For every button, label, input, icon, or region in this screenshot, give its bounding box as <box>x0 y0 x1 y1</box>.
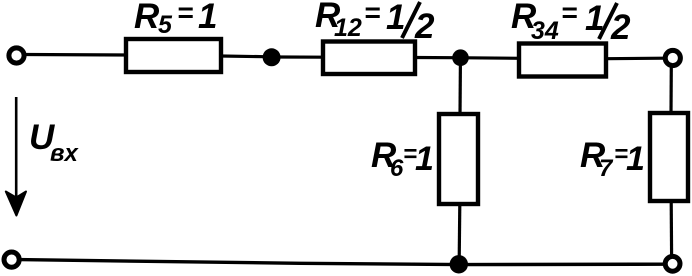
wire R6 down to node C <box>458 204 462 260</box>
label R5 = 1 <box>134 0 217 39</box>
wire node B down to R6 <box>458 64 462 116</box>
svg-text:2: 2 <box>610 8 631 47</box>
wire node B to R34 <box>468 56 521 60</box>
bottom rail wire <box>19 260 665 265</box>
terminal output top-right <box>665 50 680 65</box>
label R34 = 1/2 <box>511 0 631 47</box>
svg-text:1: 1 <box>198 0 217 36</box>
resistor R5 body <box>126 39 221 72</box>
wire R5 to node A <box>221 54 265 58</box>
svg-text:1: 1 <box>626 140 645 178</box>
svg-text:=: = <box>364 0 380 28</box>
wire node A to R12 <box>278 55 325 58</box>
node C junction dot on bottom rail <box>450 255 468 273</box>
wire R12 to node B <box>415 56 453 59</box>
resistor R12 body <box>323 42 415 75</box>
svg-text:7: 7 <box>599 155 614 182</box>
svg-text:вх: вх <box>50 140 79 167</box>
terminal bottom-left <box>4 252 19 267</box>
svg-text:1: 1 <box>386 0 405 37</box>
label R7 = 1 <box>580 136 645 182</box>
node B junction dot <box>452 49 469 66</box>
svg-text:R: R <box>134 0 160 36</box>
label U vx input voltage <box>29 118 79 167</box>
svg-text:12: 12 <box>334 14 362 42</box>
svg-text:=: = <box>177 0 193 28</box>
svg-text:5: 5 <box>158 11 173 39</box>
label R12 = 1/2 <box>315 0 435 46</box>
terminal bottom-right <box>665 256 680 271</box>
terminal input top-left <box>9 48 24 63</box>
wire R34 to output terminal <box>606 57 664 61</box>
svg-text:34: 34 <box>531 17 559 45</box>
svg-text:1: 1 <box>415 140 434 178</box>
resistor R7 body <box>650 113 688 201</box>
wire output terminal down to R7 <box>669 66 672 116</box>
svg-text:=: = <box>561 0 577 28</box>
svg-text:2: 2 <box>414 7 435 46</box>
resistor R34 body <box>519 44 606 77</box>
wire R7 down to bottom-right terminal <box>670 201 674 256</box>
svg-text:6: 6 <box>390 155 404 182</box>
node A junction dot <box>263 48 281 66</box>
wire input to R5 <box>25 53 128 57</box>
label R6 = 1 <box>371 136 434 182</box>
arrow for input voltage direction <box>6 97 26 216</box>
resistor R6 body <box>439 114 478 204</box>
